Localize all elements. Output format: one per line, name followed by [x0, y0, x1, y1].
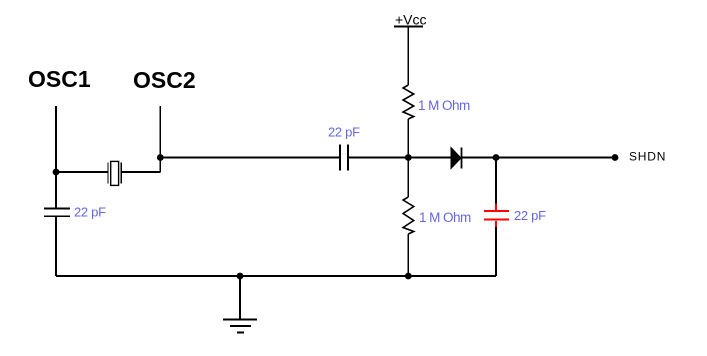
svg-text:SHDN: SHDN — [629, 150, 666, 164]
svg-text:+Vcc: +Vcc — [395, 12, 427, 28]
svg-text:OSC2: OSC2 — [133, 67, 196, 93]
svg-text:22 pF: 22 pF — [74, 205, 106, 220]
svg-text:OSC1: OSC1 — [28, 66, 91, 92]
svg-text:22 pF: 22 pF — [328, 125, 360, 140]
svg-text:1 M Ohm: 1 M Ohm — [418, 98, 470, 113]
svg-text:1 M Ohm: 1 M Ohm — [419, 210, 471, 225]
svg-text:22 pF: 22 pF — [514, 208, 546, 223]
